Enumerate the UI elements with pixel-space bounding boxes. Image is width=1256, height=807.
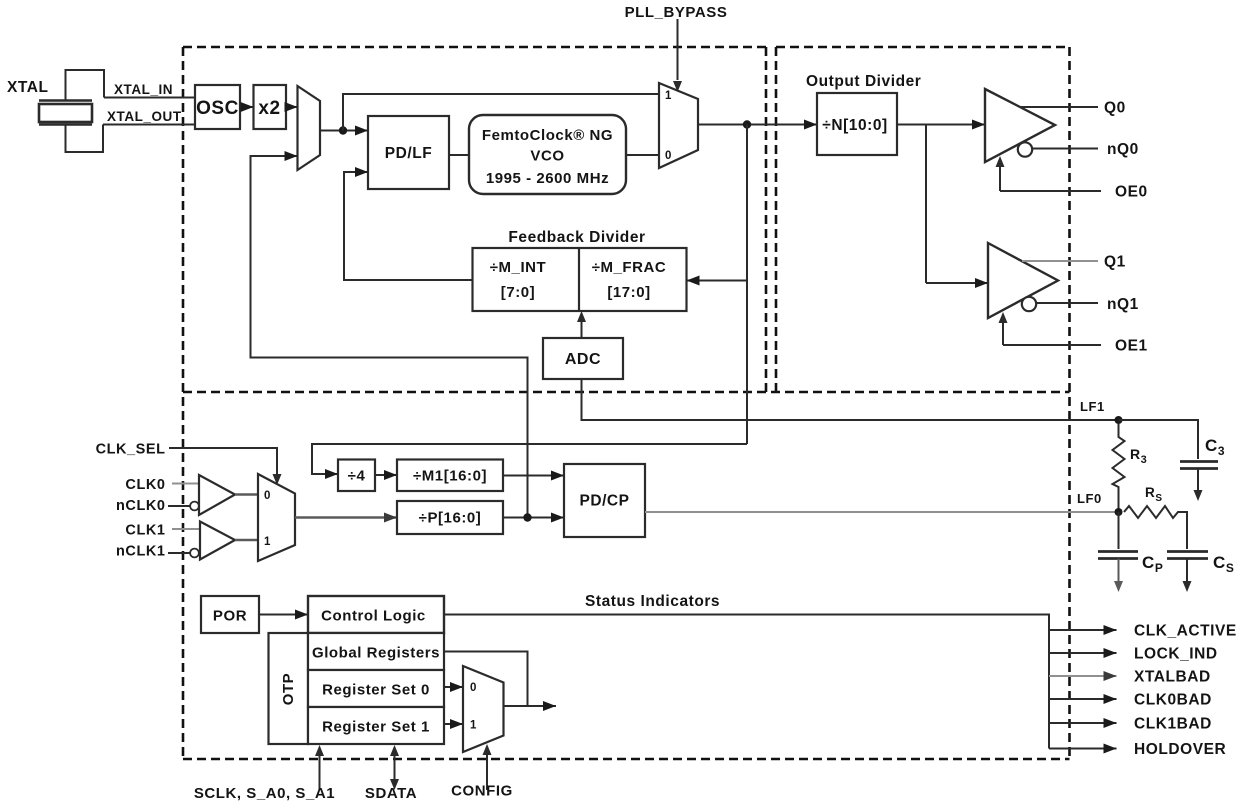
svg-text:CONFIG: CONFIG [451,783,513,800]
svg-text:LF0: LF0 [1077,491,1102,506]
svg-text:XTAL_OUT: XTAL_OUT [107,109,182,124]
svg-text:÷M_FRAC: ÷M_FRAC [592,259,667,276]
svg-text:CLK1BAD: CLK1BAD [1134,716,1212,733]
svg-text:Q0: Q0 [1104,100,1126,117]
svg-text:0: 0 [470,682,477,694]
svg-text:FemtoClock® NG: FemtoClock® NG [482,127,613,144]
svg-text:÷M_INT: ÷M_INT [490,259,547,276]
svg-text:SCLK, S_A0, S_A1: SCLK, S_A0, S_A1 [194,785,335,802]
svg-text:CLK0BAD: CLK0BAD [1134,692,1212,709]
svg-text:Register Set 0: Register Set 0 [322,682,430,699]
svg-text:Global Registers: Global Registers [312,645,440,662]
svg-text:x2: x2 [258,98,280,119]
svg-text:Control Logic: Control Logic [321,608,426,625]
svg-text:Status Indicators: Status Indicators [585,593,720,610]
svg-text:PLL_BYPASS: PLL_BYPASS [625,4,728,21]
svg-text:0: 0 [665,150,672,162]
svg-text:PD/CP: PD/CP [579,493,629,510]
svg-text:CLK_ACTIVE: CLK_ACTIVE [1134,623,1237,640]
svg-text:OSC: OSC [196,98,239,119]
svg-text:÷P[16:0]: ÷P[16:0] [419,510,482,527]
svg-text:PD/LF: PD/LF [385,145,433,162]
svg-text:1: 1 [665,90,672,102]
svg-text:nCLK0: nCLK0 [116,498,165,514]
svg-text:HOLDOVER: HOLDOVER [1134,741,1226,758]
svg-text:ADC: ADC [565,351,601,368]
svg-text:POR: POR [213,608,247,625]
svg-text:[17:0]: [17:0] [607,284,650,301]
svg-text:OE1: OE1 [1115,338,1148,355]
svg-text:[7:0]: [7:0] [501,284,535,301]
svg-text:LOCK_IND: LOCK_IND [1134,646,1218,663]
svg-text:VCO: VCO [530,148,564,165]
svg-text:XTAL: XTAL [7,79,49,96]
svg-text:nQ1: nQ1 [1107,296,1139,313]
svg-text:1995 - 2600 MHz: 1995 - 2600 MHz [486,170,609,187]
svg-text:XTAL_IN: XTAL_IN [114,82,173,97]
svg-text:OTP: OTP [280,673,297,706]
svg-text:nQ0: nQ0 [1107,141,1139,158]
svg-text:nCLK1: nCLK1 [116,544,165,560]
svg-text:÷4: ÷4 [348,468,366,485]
svg-text:0: 0 [264,490,271,502]
svg-text:CLK1: CLK1 [125,523,165,539]
svg-text:1: 1 [264,536,271,548]
svg-text:LF1: LF1 [1080,399,1105,414]
svg-text:XTALBAD: XTALBAD [1134,669,1211,686]
svg-text:÷N[10:0]: ÷N[10:0] [822,117,887,134]
svg-text:CLK0: CLK0 [125,477,165,493]
svg-text:SDATA: SDATA [365,785,417,802]
svg-text:OE0: OE0 [1115,184,1148,201]
svg-text:Feedback Divider: Feedback Divider [508,229,645,246]
svg-text:1: 1 [470,720,477,732]
svg-text:Register Set 1: Register Set 1 [322,719,430,736]
svg-text:CLK_SEL: CLK_SEL [96,442,166,458]
svg-text:÷M1[16:0]: ÷M1[16:0] [413,468,487,485]
svg-text:Q1: Q1 [1104,254,1126,271]
svg-text:Output Divider: Output Divider [806,73,921,90]
